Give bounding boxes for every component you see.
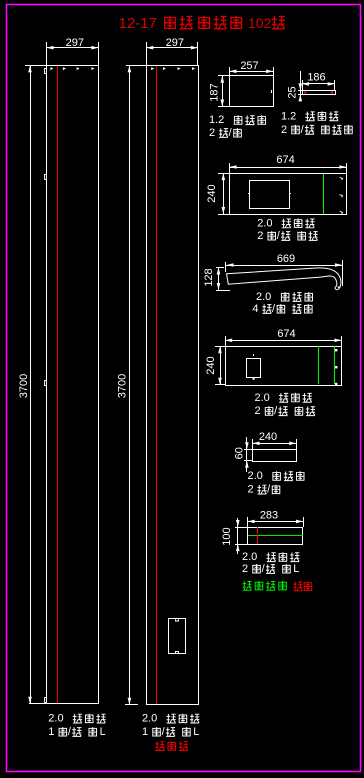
part C cutout ticks: [248, 193, 249, 195]
part B bar 186x25: [303, 91, 336, 95]
svg-text:240: 240: [259, 431, 277, 443]
panel 2 bottom extension segment: [125, 704, 138, 706]
svg-text:2.0: 2.0: [257, 217, 272, 229]
part C 240 dimension: [223, 173, 225, 214]
part C green bend line: [323, 174, 325, 214]
svg-text:669: 669: [277, 253, 295, 265]
svg-text:25: 25: [287, 86, 299, 98]
svg-text:60: 60: [234, 447, 246, 459]
part D rolled tip dot: [338, 286, 340, 288]
panel 1 3700 dimension line: [30, 65, 32, 704]
svg-text:186: 186: [307, 72, 325, 84]
svg-text:1: 1: [142, 726, 148, 738]
part B red end marks: [304, 91, 306, 93]
panel 1 red seam line: [57, 66, 59, 703]
svg-text:240: 240: [205, 356, 217, 374]
svg-text:128: 128: [203, 268, 215, 286]
svg-text:3700: 3700: [18, 374, 30, 398]
part E green bend lines: [318, 346, 320, 384]
svg-text:257: 257: [240, 60, 258, 72]
svg-text:L: L: [193, 726, 199, 738]
part D 128 dimension: [218, 268, 220, 290]
panel 2 note door-assembly (red): [155, 741, 164, 750]
part F rect 240x60: [253, 450, 297, 462]
part C inner cutout: [250, 181, 290, 209]
part A rect 257x187: [230, 76, 274, 107]
svg-text:2: 2: [209, 127, 215, 139]
note rolled-mouth (red): [293, 582, 302, 591]
svg-text:3700: 3700: [117, 374, 129, 398]
part E cutout ticks: [253, 354, 255, 356]
part G 100 dimension: [237, 518, 239, 554]
part E inner door cutout: [247, 359, 261, 378]
svg-text:2.0: 2.0: [242, 551, 257, 563]
note mark-outside (green): [242, 581, 251, 590]
svg-text:2: 2: [248, 484, 254, 496]
svg-text:4: 4: [252, 303, 258, 315]
svg-text:674: 674: [276, 154, 294, 166]
panel 2 red seam line: [156, 66, 158, 704]
panel 1 left edge notches: [45, 69, 47, 74]
svg-text:1.2: 1.2: [209, 114, 224, 126]
part E white marks on bend line: [335, 349, 337, 351]
panel 2 3700 dimension line: [129, 65, 131, 705]
panel 1 top edge extension left: [25, 65, 47, 67]
svg-text:2.0: 2.0: [48, 713, 63, 725]
panel 1 outline: [47, 66, 99, 704]
part G red mark line: [257, 527, 259, 544]
svg-text:187: 187: [209, 83, 221, 101]
svg-text:12-17: 12-17: [119, 15, 157, 32]
part E 240 dimension: [220, 346, 222, 385]
part C rect 674x240: [230, 174, 347, 215]
part E rect 674x240: [226, 347, 342, 386]
svg-text:674: 674: [277, 328, 295, 340]
panel 2 top tick marks: [151, 67, 154, 70]
svg-text:2: 2: [257, 230, 263, 242]
panel 1 top tick marks: [50, 67, 53, 70]
svg-text:100: 100: [221, 527, 233, 545]
svg-text:2: 2: [242, 563, 248, 575]
part A 187 dimension: [222, 76, 224, 106]
svg-text:2: 2: [255, 405, 261, 417]
svg-text:240: 240: [206, 184, 218, 202]
svg-text:2.0: 2.0: [255, 392, 270, 404]
part C right-side ticks: [340, 177, 343, 180]
svg-text:2.0: 2.0: [142, 713, 157, 725]
svg-text:L: L: [293, 563, 299, 575]
svg-text:283: 283: [260, 510, 278, 522]
svg-text:2.0: 2.0: [256, 291, 271, 303]
panel 2 outline: [147, 66, 199, 705]
svg-text:2: 2: [281, 124, 287, 136]
panel 1 bottom edge extension left: [29, 703, 47, 705]
svg-text:1: 1: [48, 726, 54, 738]
part G rect 283x100: [248, 528, 303, 545]
part F 60 dimension: [246, 437, 248, 472]
svg-text:102: 102: [248, 15, 272, 31]
svg-text:1.2: 1.2: [281, 110, 296, 122]
part D blade outline: [227, 268, 341, 290]
panel 2 top edge extension left: [126, 65, 146, 67]
part G green mid line: [248, 535, 303, 537]
svg-text:L: L: [100, 726, 106, 738]
svg-text:2.0: 2.0: [248, 470, 263, 482]
part A right-edge tick: [271, 90, 273, 93]
panel 2 door cutout: [169, 619, 186, 654]
part B 25 dimension: [300, 71, 302, 100]
